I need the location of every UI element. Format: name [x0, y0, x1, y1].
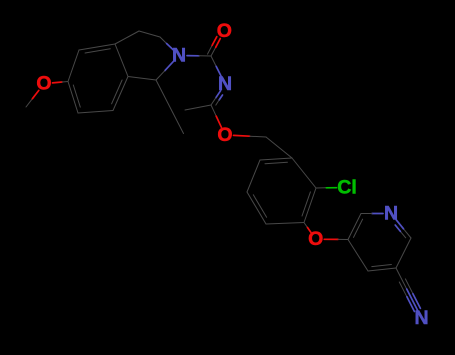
- ring A edge R-BR double: [112, 77, 128, 111]
- ring A edge BR-BL: [78, 111, 113, 114]
- ring A edge TL-TR double: [79, 44, 115, 53]
- bond C-O2: [304, 223, 311, 233]
- svg-text:N: N: [172, 45, 186, 67]
- bridge bond CH2a-CH2b: [139, 31, 160, 37]
- ring E edge c4p-c5p double: [368, 265, 396, 272]
- svg-text:Cl: Cl: [337, 177, 357, 199]
- ring E edge c5p-c6p: [396, 238, 411, 268]
- bond C4-O1: [211, 105, 221, 127]
- svg-text:O: O: [36, 73, 51, 95]
- methoxy CH3-O bond: [26, 90, 39, 107]
- svg-text:N: N: [414, 307, 428, 329]
- svg-text:O: O: [217, 124, 232, 146]
- ring A edge BL-L double: [68, 82, 80, 114]
- ring E edge c2p-c3p double: [348, 214, 363, 240]
- bond O2-pyridine C3: [324, 238, 348, 240]
- ring A edge L-TL: [68, 50, 79, 82]
- svg-text:N: N: [384, 203, 398, 225]
- ring D edge DBL-DL double: [247, 192, 267, 224]
- bond ring A - C6: [128, 77, 156, 81]
- ring D edge T-ClV: [292, 158, 316, 188]
- svg-text:O: O: [217, 20, 232, 42]
- ring E edge Npy-c2p: [361, 213, 383, 215]
- bond C5-C4: [185, 105, 211, 110]
- bond N1-C2: [187, 55, 211, 57]
- bond N3=C4 double: [211, 91, 223, 105]
- bond N1-C6: [156, 61, 174, 80]
- methoxy O-aryl bond: [53, 82, 69, 83]
- bridge bond ring A - CH2a: [115, 31, 139, 44]
- ring D edge DTL-T double: [260, 158, 292, 164]
- bond C-Cl: [316, 187, 337, 189]
- svg-text:O: O: [308, 228, 323, 250]
- bond O1-CH2: [234, 135, 267, 137]
- ring D edge O2V-DBL: [266, 223, 304, 225]
- carbonyl C2=O: [208, 37, 221, 56]
- ring E edge c6p-Npy double: [395, 220, 411, 238]
- bridge bond CH2b-N1: [160, 37, 173, 50]
- ring D edge DL-DTL: [247, 160, 260, 192]
- ring E edge c3p-c4p: [348, 240, 368, 272]
- ring A edge TR-R: [115, 44, 128, 77]
- bond CH2-ring D: [266, 137, 292, 158]
- nitrile C#N triple bond: [396, 268, 420, 312]
- bond C2-N3: [211, 56, 221, 77]
- ring D edge ClV-O2V double: [302, 188, 316, 223]
- bond C6-C5chain: [156, 80, 184, 134]
- svg-text:N: N: [218, 73, 232, 95]
